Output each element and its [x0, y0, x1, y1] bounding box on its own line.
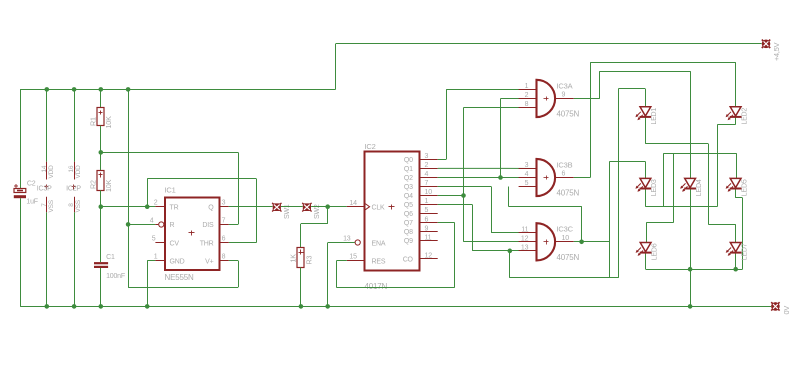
wire V+ vertical — [238, 261, 240, 288]
svg-text:10: 10 — [562, 235, 570, 242]
wire R3 to 0V — [300, 268, 302, 307]
wire Q1 to IC3B in3 — [438, 167, 537, 169]
junction CLK node — [325, 204, 330, 209]
svg-text:8: 8 — [68, 203, 75, 207]
svg-text:Q9: Q9 — [404, 238, 413, 245]
wire Q5 branch horizontal — [510, 277, 619, 279]
svg-text:0V: 0V — [782, 306, 791, 315]
svg-text:LED7: LED7 — [741, 243, 748, 260]
svg-text:10: 10 — [425, 189, 433, 196]
wire diag1 vertical — [708, 144, 710, 225]
wire Q4 link — [438, 195, 464, 197]
wire LED1 cathode drop — [645, 117, 647, 144]
wire Q5 branch riser — [618, 89, 620, 278]
wire IC3A out — [574, 98, 600, 100]
svg-text:10K: 10K — [104, 116, 113, 129]
junction R1-R2 node — [99, 150, 104, 155]
svg-text:R2: R2 — [88, 180, 97, 189]
wire LED7 top link — [708, 224, 735, 226]
wire LED6 anode drop — [646, 223, 648, 243]
junction R2-C1 node — [99, 204, 104, 209]
wire LED7 cathode drop — [735, 253, 737, 269]
svg-text:1: 1 — [425, 198, 429, 205]
wire +4.5V rail — [336, 43, 762, 45]
wire C2 branch upper — [20, 89, 22, 188]
wire Q4 to IC3C in12 — [464, 241, 537, 243]
svg-text:VSS: VSS — [75, 199, 82, 212]
capacitor C2 — [14, 189, 26, 193]
wire LED2 cathode drop — [735, 117, 737, 125]
svg-text:6: 6 — [222, 236, 226, 243]
wire IC3B out — [574, 177, 591, 179]
or-gate IC3C 4075N — [537, 223, 556, 260]
svg-text:LED4: LED4 — [696, 179, 703, 196]
wire mid left drop — [663, 153, 665, 206]
svg-text:RES: RES — [372, 259, 386, 266]
wire LED5 cathode down — [742, 198, 744, 269]
wire IC3B out riser — [590, 62, 592, 177]
wire IC3A out riser — [599, 71, 601, 98]
svg-text:8: 8 — [525, 101, 529, 108]
svg-text:LED5: LED5 — [741, 179, 748, 196]
svg-text:3: 3 — [222, 200, 226, 207]
wire Q5 link — [438, 204, 473, 206]
junction R pin node — [126, 222, 131, 227]
wire Q7 link — [438, 222, 455, 224]
svg-text:1: 1 — [154, 254, 158, 261]
svg-text:R: R — [170, 222, 175, 229]
jumper SW1 — [272, 203, 281, 212]
svg-text:4: 4 — [425, 171, 429, 178]
svg-text:IC3A: IC3A — [557, 81, 573, 90]
wire Q4 riser — [463, 108, 465, 196]
svg-text:12: 12 — [521, 235, 529, 242]
wire CLK branch down — [327, 207, 329, 224]
svg-text:+4,5V: +4,5V — [772, 42, 781, 61]
svg-text:12: 12 — [425, 252, 433, 259]
svg-text:LED3: LED3 — [651, 179, 658, 196]
wire TR net — [101, 206, 156, 208]
junction IC3C out node — [579, 240, 584, 245]
wire IC3C out riser — [609, 162, 611, 278]
svg-text:C1: C1 — [106, 254, 115, 261]
wire LED5 anode drop — [736, 153, 738, 178]
svg-text:TR: TR — [170, 204, 179, 211]
svg-text:CV: CV — [170, 240, 180, 247]
svg-text:4075N: 4075N — [557, 110, 580, 119]
wire LED7 anode drop — [735, 224, 737, 242]
junction Q2 node — [498, 175, 503, 180]
svg-text:16: 16 — [68, 165, 75, 172]
wire cathode bus — [646, 269, 743, 271]
power pin IC2P — [74, 89, 76, 161]
svg-text:VDD: VDD — [48, 165, 55, 179]
svg-text:Q8: Q8 — [404, 229, 413, 236]
wire LED3 anode drop — [645, 162, 647, 179]
wire Q4 down — [463, 196, 465, 242]
wire LED2 cathode link — [717, 124, 735, 126]
svg-text:IC3B: IC3B — [557, 160, 573, 169]
svg-text:7: 7 — [425, 180, 429, 187]
wire TR-THR link horizontal — [147, 178, 256, 180]
or-gate IC3A 4075N — [537, 80, 556, 117]
svg-text:R3: R3 — [304, 256, 313, 265]
svg-text:2: 2 — [425, 162, 429, 169]
svg-text:LED6: LED6 — [651, 243, 658, 260]
svg-text:15: 15 — [349, 253, 357, 260]
wire LED3 cathode drop — [645, 189, 647, 207]
wire Q3 to IC3C in11 — [491, 232, 536, 234]
wire Q0 link — [438, 159, 447, 161]
wire IC3C in5 horizontal — [508, 206, 581, 208]
svg-text:5: 5 — [525, 180, 529, 187]
wire IC3C out — [574, 241, 610, 243]
svg-text:CLK: CLK — [372, 205, 386, 212]
wire GND pin link — [147, 260, 155, 262]
svg-text:3: 3 — [525, 162, 529, 169]
svg-text:IC1: IC1 — [165, 186, 176, 195]
junction 0V rail dots — [45, 304, 50, 309]
wire IC3C in5 riser — [581, 206, 583, 242]
wire LED3 cathode link — [645, 206, 717, 208]
wire in5 riser — [508, 187, 510, 207]
wire LED1 top link — [618, 88, 645, 90]
svg-text:C2: C2 — [27, 181, 36, 188]
wire LED1 anode drop — [645, 89, 647, 107]
svg-text:2: 2 — [154, 200, 158, 207]
wire LED4 anode drop — [690, 71, 692, 178]
svg-text:3: 3 — [425, 153, 429, 160]
resistor R1 — [97, 108, 104, 126]
svg-text:Q2: Q2 — [404, 175, 413, 182]
wire LED6 cathode drop — [645, 253, 647, 269]
wire Q output to SW1 — [229, 206, 273, 208]
svg-text:Q1: Q1 — [404, 166, 413, 173]
wire DIS pin link — [229, 224, 238, 226]
svg-text:1: 1 — [525, 83, 529, 90]
jumper SW2 — [302, 203, 311, 212]
junction VCC rail dots — [45, 87, 50, 92]
wire LED6 top link — [646, 222, 673, 224]
or-gate IC3B 4075N — [537, 159, 556, 196]
wire LED4 cathode drop — [690, 189, 692, 307]
wire V+ pin link — [229, 260, 238, 262]
svg-text:7: 7 — [222, 217, 226, 224]
wire LED5 cathode jog — [736, 197, 743, 199]
wire VCC top rail — [20, 89, 336, 91]
svg-text:1K: 1K — [289, 254, 298, 263]
wire CLK branch horizontal — [301, 223, 328, 225]
wire ENA to 0V — [327, 243, 329, 307]
wire ENA net — [328, 242, 355, 244]
timer IC1 NE555N — [165, 198, 220, 271]
svg-text:10K: 10K — [104, 179, 113, 192]
wire Q3 link — [438, 186, 492, 188]
wire C2 branch lower — [20, 198, 22, 306]
svg-text:11: 11 — [521, 226, 528, 233]
svg-text:IC2: IC2 — [365, 142, 376, 151]
LED LED5 — [730, 178, 741, 187]
wire DIS feedback horizontal — [101, 152, 238, 154]
svg-text:THR: THR — [200, 240, 214, 247]
wire Q0 to IC3A in1 — [446, 89, 536, 91]
svg-text:13: 13 — [343, 236, 351, 243]
svg-text:11: 11 — [425, 234, 432, 241]
svg-text:13: 13 — [521, 244, 529, 251]
svg-text:IC2P: IC2P — [66, 185, 81, 192]
wire line A — [590, 62, 735, 64]
svg-text:14: 14 — [41, 165, 48, 172]
wire VCC to R1 — [100, 89, 102, 107]
wire LED5 cathode drop — [735, 189, 737, 198]
svg-text:14: 14 — [349, 200, 357, 207]
svg-text:4017N: 4017N — [365, 282, 388, 291]
wire VCC to R pin vertical — [128, 89, 130, 287]
svg-text:9: 9 — [425, 225, 429, 232]
counter IC2 4017N — [365, 152, 420, 271]
wire RES link — [336, 260, 346, 262]
wire Q4 to IC3A in8 — [464, 107, 537, 109]
wire THR link vertical — [256, 179, 258, 243]
junction cathode bus dots — [688, 267, 693, 272]
svg-text:Q0: Q0 — [404, 157, 413, 164]
LED LED3 — [640, 178, 651, 187]
svg-text:7: 7 — [41, 203, 48, 207]
wire Q2 riser — [500, 98, 502, 177]
svg-text:Q5: Q5 — [404, 202, 413, 209]
svg-text:VSS: VSS — [48, 199, 55, 212]
svg-text:Q7: Q7 — [404, 220, 413, 227]
wire VCC rail riser — [335, 44, 337, 90]
supply 0V symbol — [771, 302, 779, 310]
wire Q5 down — [472, 205, 474, 251]
svg-text:4075N: 4075N — [557, 189, 580, 198]
wire THR pin link — [229, 242, 257, 244]
svg-text:LED1: LED1 — [651, 108, 658, 125]
svg-text:4: 4 — [525, 171, 529, 178]
wire 0V bottom rail — [20, 306, 771, 308]
wire DIS feedback vertical — [238, 152, 240, 224]
svg-text:4: 4 — [150, 217, 154, 224]
wire Q0 riser — [446, 89, 448, 159]
svg-text:Q3: Q3 — [404, 184, 413, 191]
resistor R3 — [297, 248, 304, 268]
svg-text:6: 6 — [562, 171, 566, 178]
svg-text:R1: R1 — [88, 117, 97, 126]
LED LED6 — [640, 243, 651, 252]
wire LED1 cathode link — [645, 143, 708, 145]
wire LED6 feed drop — [673, 153, 675, 222]
wire Q2 to IC3A in2 — [501, 98, 537, 100]
svg-text:5: 5 — [152, 236, 156, 243]
svg-text:100nF: 100nF — [106, 273, 125, 280]
junction Q4 node — [461, 193, 466, 198]
wire LED2 cathode down — [717, 125, 719, 207]
svg-text:4075N: 4075N — [557, 253, 580, 262]
svg-text:GND: GND — [170, 258, 185, 265]
svg-text:Q4: Q4 — [404, 193, 413, 200]
junction TR node — [145, 204, 150, 209]
wire Q3 down — [491, 187, 493, 233]
wire to R3 — [300, 224, 302, 248]
power pin IC3P — [46, 89, 48, 161]
wire SW2 to CLK — [311, 206, 347, 208]
svg-text:6: 6 — [425, 216, 429, 223]
svg-text:IC3C: IC3C — [557, 225, 574, 234]
capacitor C1 — [94, 262, 108, 264]
svg-text:CO: CO — [403, 256, 414, 263]
svg-text:1uF: 1uF — [26, 199, 37, 206]
svg-text:9: 9 — [562, 91, 566, 98]
svg-text:NE555N: NE555N — [165, 273, 194, 282]
svg-text:VDD: VDD — [75, 165, 82, 179]
wire mid horizontal — [663, 153, 736, 155]
svg-text:V+: V+ — [205, 258, 213, 265]
wire line B — [600, 71, 690, 73]
wire TR-THR link vertical — [147, 179, 149, 207]
svg-text:Q: Q — [208, 204, 214, 211]
svg-text:IC3P: IC3P — [37, 185, 52, 192]
svg-text:5: 5 — [425, 207, 429, 214]
svg-text:2: 2 — [525, 92, 529, 99]
LED LED2 — [730, 107, 741, 116]
supply +4,5V symbol — [762, 40, 770, 48]
wire LED2 anode drop — [735, 62, 737, 106]
svg-text:Q6: Q6 — [404, 211, 413, 218]
LED LED4 — [685, 178, 696, 187]
wire RES down — [336, 261, 338, 288]
junction Q5 node — [508, 249, 513, 254]
wire GND to rail — [147, 261, 149, 307]
wire R2 to C1 — [100, 190, 102, 262]
wire Q2 to IC3B in4 — [438, 177, 537, 179]
wire Q7 vertical — [454, 223, 456, 288]
resistor R2 — [97, 171, 104, 191]
LED LED7 — [730, 243, 741, 252]
wire R1 to R2 — [100, 126, 102, 171]
wire V+ return horizontal — [128, 287, 238, 289]
wire C1 to 0V — [100, 268, 102, 306]
wire SW1 to SW2 — [281, 206, 303, 208]
svg-text:DIS: DIS — [202, 222, 214, 229]
wire RES horizontal — [336, 287, 454, 289]
wire Q5 branch down — [509, 251, 511, 278]
LED LED1 — [640, 107, 651, 116]
svg-text:8: 8 — [222, 254, 226, 261]
svg-text:LED2: LED2 — [741, 108, 748, 125]
wire R pin link — [128, 224, 155, 226]
wire IC3C to LED3 — [609, 161, 645, 163]
wire Q5 to IC3C in13 — [472, 250, 536, 252]
svg-text:ENA: ENA — [372, 240, 386, 247]
